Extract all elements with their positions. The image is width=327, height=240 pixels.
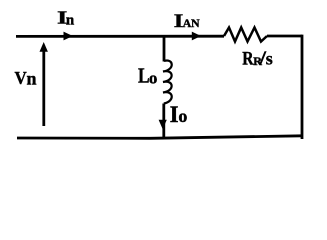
svg-text:L: L xyxy=(138,64,150,88)
current arrow In head xyxy=(64,32,73,41)
svg-text:o: o xyxy=(178,106,187,126)
svg-text:I: I xyxy=(170,102,179,127)
wire inductor to bottom xyxy=(162,104,165,138)
voltage arrow Vn head xyxy=(40,42,48,52)
svg-text:V: V xyxy=(15,68,27,88)
svg-text:R: R xyxy=(242,48,254,69)
node branch: wire from top wire down to inductor xyxy=(163,36,166,62)
svg-text:AN: AN xyxy=(183,16,200,30)
current arrow IAN head xyxy=(192,32,201,41)
resistor RR/s zigzag xyxy=(224,28,267,42)
svg-text:o: o xyxy=(149,68,158,87)
wire top right to corner xyxy=(267,35,302,38)
wire bottom horizontal xyxy=(17,136,302,139)
inductor LO coil xyxy=(163,61,172,104)
svg-text:s: s xyxy=(266,48,273,68)
voltage arrow Vn shaft xyxy=(42,50,45,126)
wire top horizontal xyxy=(16,35,224,38)
wire right vertical xyxy=(301,35,304,139)
current arrow IO head xyxy=(159,120,167,129)
svg-text:n: n xyxy=(27,69,37,89)
svg-text:n: n xyxy=(66,13,75,29)
